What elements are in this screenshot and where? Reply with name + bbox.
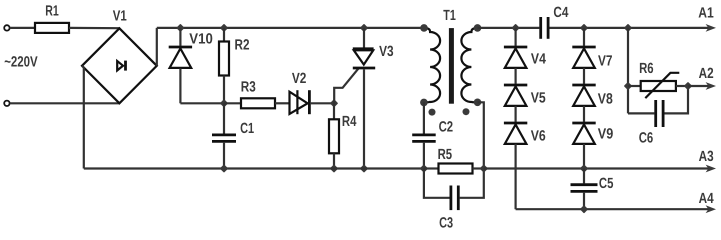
svg-text:C1: C1 — [240, 121, 254, 137]
svg-text:V7: V7 — [598, 54, 613, 70]
svg-text:A3: A3 — [699, 149, 714, 165]
diode V9 — [572, 106, 595, 144]
svg-text:V1: V1 — [113, 9, 127, 25]
pin T1 primary top — [420, 24, 428, 32]
wire R6 branch down — [627, 28, 629, 114]
varistor R6 — [628, 73, 688, 98]
diode V10 — [169, 28, 192, 103]
node R4 bottom — [330, 164, 338, 172]
resistor R5 — [424, 164, 484, 174]
node R2 top — [220, 24, 228, 32]
transformer T1 secondary winding — [461, 28, 477, 102]
terminal X1 (top input) — [4, 25, 9, 30]
svg-text:V3: V3 — [379, 44, 394, 60]
node C5 bottom — [580, 205, 588, 213]
node C1 bottom — [220, 164, 228, 172]
node V4 stack top — [511, 24, 519, 32]
resistor R4 — [329, 103, 339, 168]
node R5 right — [480, 164, 488, 172]
pin T1 secondary top — [474, 24, 482, 32]
svg-text:C5: C5 — [599, 176, 614, 192]
svg-text:V5: V5 — [531, 91, 546, 107]
capacitor C1 — [212, 103, 236, 168]
node R6 branch top — [624, 24, 632, 32]
svg-text:A1: A1 — [698, 6, 714, 22]
resistor R2 — [219, 28, 229, 103]
svg-text:C2: C2 — [439, 120, 454, 136]
polarity dot primary — [429, 109, 436, 116]
wire V9 down to A3 rail — [583, 144, 585, 169]
svg-text:A4: A4 — [699, 191, 715, 207]
wire to A2 arrow — [688, 85, 710, 87]
wire V10 bottom to node A — [180, 102, 224, 104]
svg-text:C6: C6 — [639, 131, 654, 147]
arrow A4 — [706, 205, 716, 213]
diode V7 — [572, 28, 595, 68]
node V3 bottom — [360, 164, 368, 172]
capacitor C6 — [628, 86, 688, 127]
capacitor C4 — [541, 17, 548, 39]
svg-text:C4: C4 — [553, 5, 569, 21]
svg-text:V8: V8 — [598, 92, 613, 108]
arrow A2 — [706, 82, 716, 90]
thyristor V3 — [353, 28, 375, 169]
node R6 left — [624, 82, 632, 90]
wire bottom rail left — [84, 167, 424, 169]
svg-text:V10: V10 — [189, 32, 213, 48]
resistor R3 — [224, 98, 289, 108]
wire bridge DC- down to bottom rail — [82, 66, 84, 169]
node V3 top — [360, 24, 368, 32]
wire X1 to R1 — [10, 27, 35, 29]
dinistor V2 — [290, 90, 335, 114]
node C5 top — [580, 164, 588, 172]
wire X2 to bridge bottom corner — [10, 102, 120, 104]
svg-text:V4: V4 — [531, 52, 547, 68]
bridge rectifier V1 — [82, 28, 157, 103]
wire top rail (T1 secondary to C4) — [478, 27, 540, 29]
svg-text:R3: R3 — [241, 79, 256, 95]
diode V4 — [504, 28, 527, 68]
wire top rail (bridge to T1 primary) — [157, 27, 424, 29]
node A (R2/R3/C1/V10 junction) — [220, 99, 228, 107]
node R6 right — [684, 82, 692, 90]
node V7 stack top — [580, 24, 588, 32]
svg-text:A2: A2 — [699, 66, 714, 82]
transformer T1 primary winding — [424, 28, 440, 103]
arrow A1 — [706, 24, 716, 32]
svg-text:R2: R2 — [235, 38, 250, 54]
wire T1 secondary bottom to R5 right node — [478, 102, 484, 168]
wire top rail (C4 to A1 arrow) — [549, 27, 710, 29]
arrow A3 — [706, 165, 716, 173]
terminal X2 (bottom input) — [4, 101, 9, 106]
node V10 top — [176, 24, 184, 32]
diode V6 — [504, 106, 527, 144]
svg-text:V2: V2 — [292, 71, 307, 87]
transformer T1 core — [449, 28, 454, 104]
wire A3 rail — [484, 167, 710, 169]
svg-text:R1: R1 — [45, 4, 59, 20]
node R5 left — [420, 164, 428, 172]
polarity dot secondary — [463, 108, 470, 115]
svg-text:V6: V6 — [531, 128, 546, 144]
capacitor C2 — [412, 102, 436, 168]
svg-text:~220V: ~220V — [4, 55, 38, 71]
wire V3 gate — [334, 68, 359, 103]
svg-text:R4: R4 — [342, 114, 357, 130]
pin T1 primary bottom — [420, 99, 428, 107]
wire R1 to bridge top — [69, 27, 119, 30]
svg-text:R6: R6 — [639, 61, 654, 77]
resistor R1 — [35, 23, 69, 33]
wire V6 down to A4 rail — [514, 144, 516, 209]
wire bridge DC+ up to top rail — [156, 28, 158, 66]
svg-text:R5: R5 — [438, 147, 453, 163]
pin T1 secondary bottom — [474, 99, 482, 107]
svg-text:T1: T1 — [443, 8, 456, 24]
wire A4 rail — [516, 208, 710, 210]
capacitor C3 — [424, 169, 484, 211]
svg-text:V9: V9 — [598, 127, 614, 143]
diode V8 — [572, 68, 595, 106]
capacitor C5 — [571, 169, 598, 210]
node B (V2/R4/gate junction) — [330, 99, 338, 107]
svg-text:C3: C3 — [439, 215, 453, 230]
diode V5 — [504, 68, 527, 106]
